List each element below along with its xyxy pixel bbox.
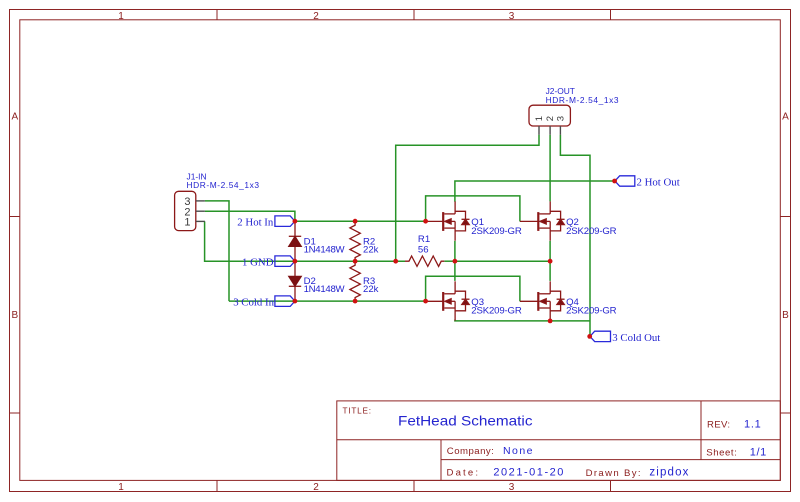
zone letters right (782, 112, 789, 322)
svg-text:B: B (782, 310, 789, 321)
svg-text:Date:: Date: (447, 468, 479, 479)
svg-text:2021-01-20: 2021-01-20 (493, 467, 563, 479)
svg-text:3: 3 (509, 482, 515, 493)
svg-text:2: 2 (313, 482, 319, 493)
transistor Q1 (426, 201, 470, 240)
svg-text:22k: 22k (363, 284, 379, 295)
J2 pin 3 (555, 116, 566, 135)
resistor R2 (350, 221, 360, 261)
global label 3 Cold Out (590, 331, 660, 344)
transistor Q3 (426, 281, 470, 320)
zone letters left (11, 112, 18, 322)
junction hot in label (293, 219, 298, 224)
svg-text:zipdox: zipdox (649, 467, 688, 479)
zone numbers top (118, 11, 515, 22)
junction cold in label (293, 299, 298, 304)
svg-text:A: A (782, 112, 789, 123)
junction gnd J2 pin1 (393, 259, 398, 264)
global label 2 Hot Out (615, 176, 680, 189)
wire J2 pin1 to gnd (396, 135, 539, 261)
svg-text:HDR-M-2.54_1x3: HDR-M-2.54_1x3 (187, 180, 260, 190)
global label 1 GND (242, 256, 295, 269)
junction hot out label (612, 179, 617, 184)
junction Q1 gate (423, 219, 428, 224)
svg-text:1: 1 (184, 217, 190, 229)
wire q4 source to cold out row (549, 320, 551, 321)
svg-text:2: 2 (313, 11, 319, 22)
svg-text:3 Cold Out: 3 Cold Out (612, 332, 660, 344)
wire gnd row center (295, 260, 455, 262)
global label 2 Hot In (237, 216, 295, 229)
wire J1 pin3 to cold column (205, 201, 229, 301)
svg-text:2SK209-GR: 2SK209-GR (471, 226, 522, 237)
svg-text:1/1: 1/1 (750, 447, 767, 459)
wire q2 source to q4 drain (549, 241, 551, 281)
title block frame (337, 401, 781, 481)
wire J1 pin2 to hot in (205, 211, 295, 221)
wire hot out row (455, 181, 615, 202)
junction R3 bottom (353, 299, 358, 304)
svg-text:Sheet:: Sheet: (706, 447, 737, 458)
junction cold out label (587, 334, 592, 339)
transistor Q4 (520, 281, 565, 320)
svg-text:56: 56 (418, 245, 429, 256)
wire J2 pin3 to cold out (560, 135, 590, 337)
svg-text:1N4148W: 1N4148W (304, 244, 346, 255)
wire gnd row right (455, 260, 550, 262)
wire cold in row (229, 300, 426, 302)
wire q1 source to gnd (454, 241, 456, 261)
svg-text:2SK209-GR: 2SK209-GR (566, 226, 617, 237)
wire gnd to q3 drain (454, 261, 456, 281)
svg-text:3: 3 (509, 11, 515, 22)
svg-text:1 GND: 1 GND (242, 257, 274, 269)
junction R2 top (353, 219, 358, 224)
wire gate link q1 q2 (426, 196, 520, 222)
svg-text:Drawn By:: Drawn By: (586, 468, 641, 479)
J1 pin 3 (184, 196, 205, 208)
svg-text:2SK209-GR: 2SK209-GR (566, 306, 617, 317)
wire J2 pin2 to q2 drain (549, 135, 551, 202)
wire gate link q3 q4 (426, 276, 520, 301)
svg-text:FetHead Schematic: FetHead Schematic (398, 412, 533, 428)
junction R1 right (453, 259, 458, 264)
svg-text:A: A (11, 112, 18, 123)
diode D2 (289, 261, 301, 301)
svg-text:Company:: Company: (447, 446, 494, 457)
svg-text:None: None (503, 445, 533, 457)
junction Q4 source (548, 319, 553, 324)
J2 pin 1 (534, 116, 545, 135)
resistor R3 (350, 261, 360, 301)
connector J2 (529, 105, 570, 126)
svg-text:REV:: REV: (707, 419, 730, 430)
resistor R1 (405, 256, 444, 266)
J2 pin 2 (545, 116, 556, 135)
svg-text:1: 1 (118, 482, 124, 493)
J1 pin 2 (184, 206, 205, 218)
global label 3 Cold In (233, 296, 295, 309)
wire hot in row (295, 220, 426, 222)
svg-text:1: 1 (534, 116, 545, 121)
junction gnd label (293, 259, 298, 264)
transistor Q2 (520, 201, 565, 240)
junction Q2 source Q4 drain (548, 259, 553, 264)
svg-text:2 Hot Out: 2 Hot Out (637, 176, 680, 188)
wire q3 source to cold out row (455, 320, 590, 321)
svg-text:1: 1 (118, 11, 124, 22)
junction Q3 gate (423, 299, 428, 304)
zone numbers bottom (118, 482, 515, 493)
diode D1 (289, 221, 301, 261)
svg-text:2SK209-GR: 2SK209-GR (471, 306, 522, 317)
svg-text:TITLE:: TITLE: (343, 407, 372, 416)
svg-text:2 Hot In: 2 Hot In (237, 217, 274, 229)
wire J1 pin1 to gnd row (205, 221, 295, 261)
svg-text:1.1: 1.1 (744, 419, 761, 431)
svg-text:3 Cold In: 3 Cold In (233, 297, 274, 309)
svg-text:1N4148W: 1N4148W (304, 284, 346, 295)
svg-text:22k: 22k (363, 244, 379, 255)
junction R2 R3 (353, 259, 358, 264)
svg-text:3: 3 (555, 116, 566, 121)
svg-text:B: B (11, 310, 18, 321)
connector J1 (175, 191, 196, 230)
svg-text:HDR-M-2.54_1x3: HDR-M-2.54_1x3 (546, 95, 619, 105)
J1 pin 1 (184, 217, 205, 229)
